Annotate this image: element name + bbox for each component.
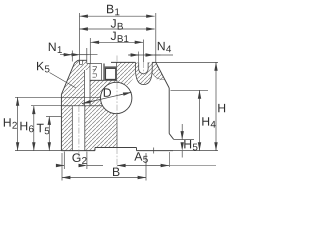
D diameter leader [82, 92, 132, 103]
label N4 [158, 42, 171, 52]
top surface right of pocket [152, 61, 156, 63]
top surface right of detail [111, 61, 136, 63]
dimension JB1 [91, 41, 143, 43]
bolt channel walls in foot [72, 106, 85, 151]
hatch boundary centerline right [116, 80, 118, 147]
slant left wall [61, 63, 74, 94]
hatch: left section (boss, slant wall, foot column) [61, 60, 90, 150]
foot bottom [61, 150, 95, 152]
detail boxes (inner ring / locking collar) [90, 62, 117, 80]
right bottom chamfer [169, 134, 173, 140]
left dimensions H2 H6 T5 [15, 97, 101, 150]
chamfer [75, 60, 79, 63]
hatch: center column around bore [85, 80, 117, 150]
hatch: pocket interior [136, 62, 153, 84]
hatch: right of pocket [152, 62, 165, 80]
hatch: right broken-out section left of pocket [117, 62, 136, 86]
recess step left [94, 148, 96, 151]
left foot wall [60, 94, 62, 150]
bottom pad right [137, 150, 174, 152]
label H [218, 104, 225, 112]
label D [104, 88, 111, 96]
boss top [78, 59, 87, 61]
label A5 [134, 152, 147, 162]
slot column walls above seat [84, 70, 90, 106]
recess step right [136, 148, 138, 151]
shoulder slant [156, 62, 169, 88]
seat line [61, 105, 102, 107]
centerlines [79, 56, 143, 169]
label K5 [37, 62, 49, 72]
tick on base line [153, 148, 155, 154]
bearing ball circle [101, 82, 132, 113]
label H4 [202, 117, 215, 127]
dimension JB [80, 28, 155, 30]
bottom dimensions G2 A5 B [57, 152, 217, 181]
label B1 [107, 5, 119, 15]
right dimensions H4 H H5 [156, 62, 218, 157]
dimension B1 [80, 15, 155, 17]
label JB1 [111, 32, 129, 42]
grease hole ticks [80, 60, 83, 64]
white bolt hole in pocket [139, 62, 148, 74]
right edge vertical [168, 88, 170, 134]
label JB [111, 19, 123, 29]
main outline [61, 48, 173, 154]
extension lines top [79, 13, 81, 64]
break line of broken-out section [152, 72, 165, 80]
label N1 [49, 43, 62, 53]
label H2 [4, 118, 17, 128]
recess bottom [95, 147, 137, 149]
N1 dimension [60, 54, 98, 56]
N4 dimension [128, 54, 173, 56]
bolt hole outline [139, 62, 148, 73]
pocket outline [136, 62, 153, 84]
label T5 [37, 124, 50, 134]
boss step to detail [86, 48, 88, 64]
label H6 [20, 122, 33, 132]
label B [113, 168, 119, 176]
label H5 [184, 140, 197, 150]
label G2 [72, 153, 86, 164]
K5 leader [50, 73, 77, 89]
